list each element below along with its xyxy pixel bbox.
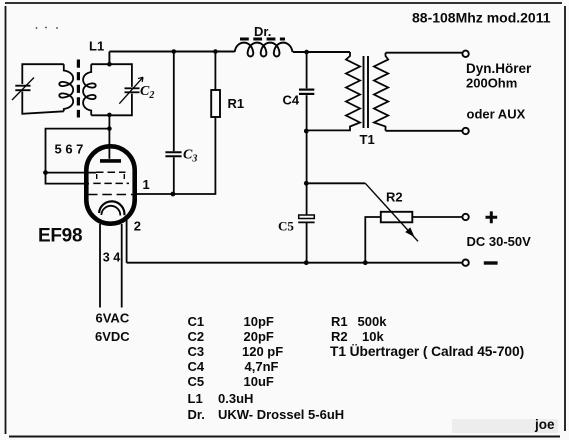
capacitor C3: [165, 151, 181, 153]
node R1 top: [213, 49, 218, 54]
wire R2 to plus terminal: [412, 216, 462, 218]
svg-text:C4: C4: [283, 93, 300, 108]
wire C3 bottom lead: [173, 157, 175, 194]
minus sign: [484, 261, 498, 264]
wire tank top to rail: [108, 52, 110, 65]
svg-text:C2: C2: [188, 329, 205, 344]
svg-text:R2: R2: [331, 329, 348, 344]
svg-text:10uF: 10uF: [244, 374, 274, 389]
wire C4 bottom lead: [306, 95, 308, 131]
node C3 bottom: [171, 192, 176, 197]
cathode arc inner: [101, 206, 120, 216]
wire top rail: [109, 51, 234, 53]
svg-text:20pF: 20pF: [244, 329, 274, 344]
capacitor C1 (variable, left tank): [12, 64, 64, 114]
svg-text:C3: C3: [188, 344, 205, 359]
heater pin 3 wire: [99, 224, 101, 308]
wire secondary top to terminal: [386, 52, 463, 54]
capacitor C5 (electrolytic): [299, 215, 315, 219]
border frame bottom: [9, 436, 560, 438]
node top of tank: [107, 62, 112, 67]
svg-text:120 pF: 120 pF: [242, 344, 283, 359]
svg-text:T1: T1: [360, 132, 375, 147]
choke dashed bar: [240, 38, 285, 41]
node R2 tap: [304, 181, 309, 186]
border frame top: [5, 2, 562, 4]
node C4 bottom: [304, 129, 309, 134]
wire C4 node down: [306, 131, 308, 215]
wire R1 bottom lead to tube pin 1: [134, 117, 215, 194]
svg-text:L1: L1: [188, 391, 203, 406]
svg-text:C1: C1: [188, 314, 205, 329]
wire secondary bottom to terminal: [386, 130, 463, 132]
svg-text:R2: R2: [386, 190, 403, 205]
wire grid pin into tube: [108, 129, 110, 159]
svg-text:200Ohm: 200Ohm: [466, 76, 517, 91]
heater pin 4 wire: [121, 224, 123, 308]
wire grid box top: [46, 115, 110, 184]
resistor R1: [211, 90, 220, 117]
wire pin 567 to tube: [46, 172, 97, 174]
node C4 top: [304, 50, 309, 55]
grid 3 dashes: [88, 194, 134, 196]
svg-text:C2: C2: [140, 84, 154, 101]
grid 1 dashes: [96, 171, 126, 173]
coil L1 secondary (right loop coil): [83, 64, 96, 115]
node C3 top: [172, 49, 177, 54]
wire R1 top lead: [214, 52, 216, 91]
potentiometer R2 body: [381, 212, 413, 223]
svg-text:3 4: 3 4: [103, 251, 121, 265]
svg-text:C4: C4: [188, 359, 205, 374]
wire ground rail: [127, 262, 463, 264]
node C5 bottom: [304, 260, 309, 265]
terminal speaker top: [462, 51, 468, 57]
svg-text:0.3uH: 0.3uH: [218, 391, 253, 406]
svg-text:4,7nF: 4,7nF: [245, 359, 279, 374]
anode bar: [100, 159, 121, 163]
svg-text:UKW- Drossel 5-6uH: UKW- Drossel 5-6uH: [218, 407, 344, 422]
inductor Dr. (choke): [235, 43, 293, 57]
svg-text:5 6 7: 5 6 7: [55, 142, 84, 157]
svg-text:L1: L1: [89, 39, 104, 54]
terminal plus: [462, 214, 468, 220]
plus sign: [486, 211, 498, 223]
node grid box: [107, 126, 112, 131]
svg-text:1: 1: [143, 177, 150, 192]
svg-text:T1 Übertrager ( Calrad 45-700): T1 Übertrager ( Calrad 45-700): [330, 343, 524, 359]
terminal minus: [462, 260, 468, 266]
transformer T1 secondary: [374, 53, 388, 131]
terminal speaker bottom: [462, 128, 468, 134]
svg-text:EF98: EF98: [38, 226, 82, 247]
svg-text:DC 30-50V: DC 30-50V: [467, 234, 532, 249]
scan smudge patch: [452, 419, 558, 433]
antenna dots: [36, 27, 58, 29]
svg-text:R1: R1: [228, 96, 245, 111]
svg-text:6VAC: 6VAC: [96, 311, 130, 326]
capacitor C2 (variable): [91, 64, 143, 115]
svg-text:oder AUX: oder AUX: [467, 107, 526, 122]
potentiometer R2 wiper arrow: [365, 183, 418, 241]
transformer T1 primary: [307, 52, 360, 130]
svg-text:Dyn.Hörer: Dyn.Hörer: [466, 61, 532, 76]
svg-text:R1: R1: [331, 314, 348, 329]
node R2 leg ground: [363, 260, 368, 265]
svg-text:500k: 500k: [358, 314, 388, 329]
grid 2 dashes: [93, 182, 129, 184]
wire C5 bottom lead: [306, 222, 308, 262]
coil L1 primary (left loop coil): [59, 64, 73, 111]
cathode pin 2 wire: [126, 219, 128, 263]
svg-text:C3: C3: [183, 148, 197, 165]
cathode arc outer: [99, 201, 124, 215]
svg-text:Dr.: Dr.: [188, 407, 205, 422]
svg-text:88-108Mhz mod.2011: 88-108Mhz mod.2011: [412, 10, 551, 26]
svg-text:2: 2: [134, 219, 141, 234]
svg-text:joe: joe: [534, 417, 555, 432]
border frame left: [5, 6, 7, 434]
wire tap to R2: [306, 182, 365, 184]
node bottom of tank: [107, 113, 112, 118]
border frame right: [564, 6, 566, 431]
wire C3 top lead: [173, 52, 175, 152]
svg-text:Dr.: Dr.: [254, 24, 271, 39]
svg-text:C5: C5: [188, 374, 205, 389]
node pins 567: [43, 170, 48, 175]
svg-text:C5: C5: [278, 219, 294, 234]
wire rail after choke: [293, 51, 350, 53]
tube EF98 envelope: [86, 146, 134, 223]
capacitor C4: [299, 88, 314, 90]
svg-text:10pF: 10pF: [244, 314, 274, 329]
svg-text:10k: 10k: [362, 329, 384, 344]
core dashed line: [77, 60, 80, 118]
svg-text:6VDC: 6VDC: [95, 329, 130, 344]
transformer T1 core: [363, 56, 365, 128]
wire R2 left leg: [365, 217, 381, 263]
wire C4 top lead: [306, 52, 308, 88]
